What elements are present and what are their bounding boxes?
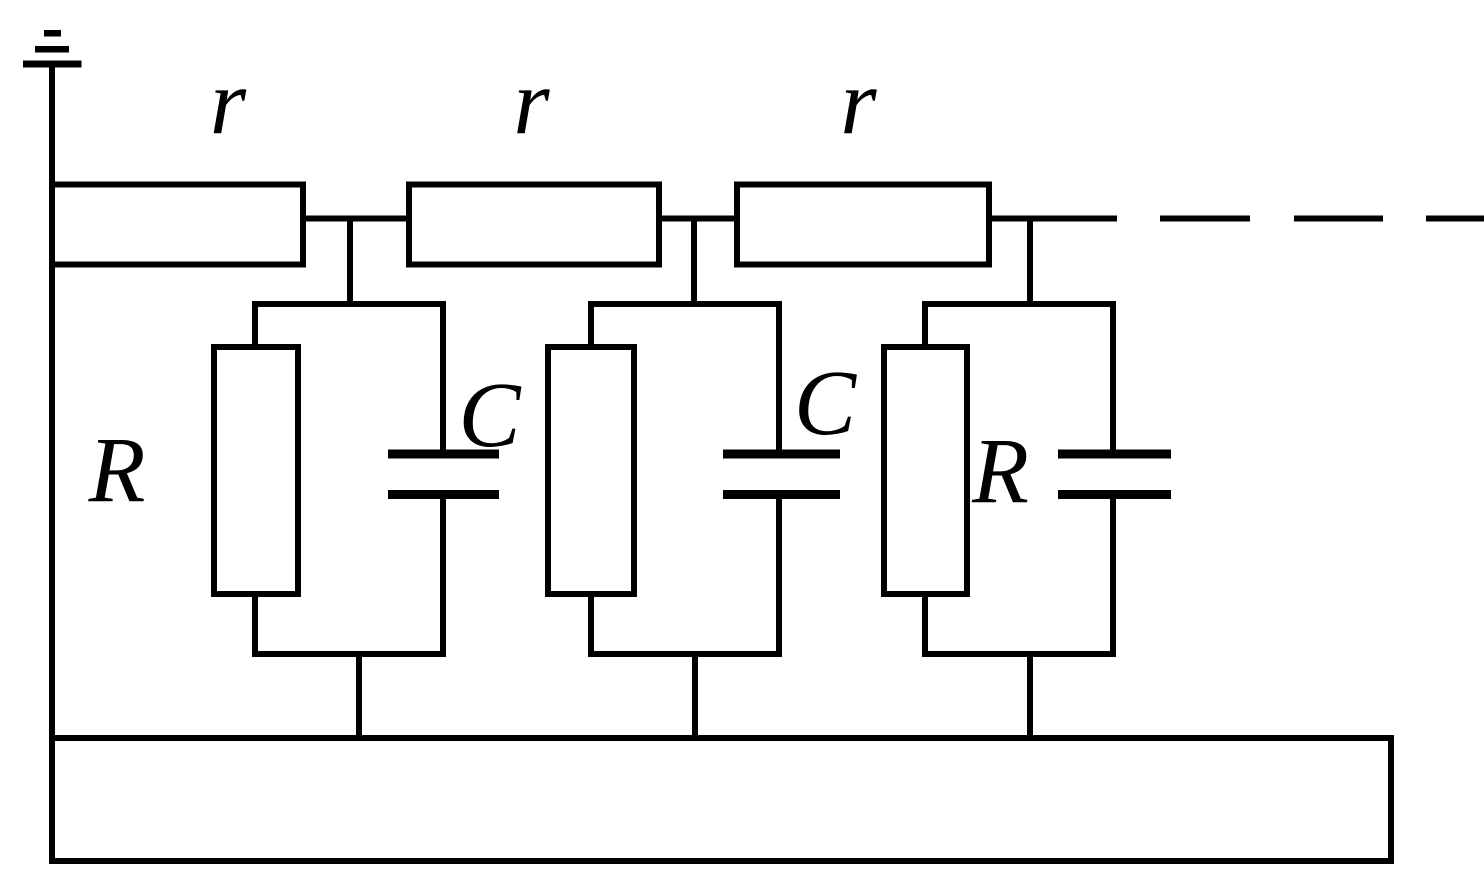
wire: section 3 top rail (922, 301, 1116, 307)
resistor R2 (548, 347, 634, 594)
capacitor C2 (723, 454, 840, 495)
wire: section 2 left branch to R2 top (588, 301, 594, 350)
wire: C3 bottom plate to section 3 bottom rail (1110, 499, 1116, 657)
resistor r1 (52, 185, 303, 265)
wire: R1 bottom to section 1 bottom rail (252, 591, 258, 657)
svg-text:R: R (971, 421, 1029, 524)
wire: section 2 to bottom electrode (692, 651, 698, 738)
node 2: junction wire down from series line (691, 219, 697, 308)
node 1: junction wire down from series line (347, 219, 353, 308)
wire: R3 bottom to section 3 bottom rail (922, 591, 928, 657)
wire: section 2 bottom rail (588, 651, 782, 657)
svg-text:r: r (840, 51, 877, 154)
resistor R3 (884, 347, 967, 594)
wire: dashed continuation of ladder (1160, 216, 1484, 222)
svg-text:C: C (794, 352, 857, 455)
wire: section 1 to bottom electrode (356, 651, 362, 738)
svg-text:r: r (210, 51, 247, 154)
wire: R2 bottom to section 2 bottom rail (588, 591, 594, 657)
wire: section 3 right branch to C3 top plate (1110, 301, 1116, 450)
capacitor C1 (388, 454, 499, 495)
wire: section 1 right branch to C1 top plate (440, 301, 446, 450)
wire: C2 bottom plate to section 2 bottom rail (776, 499, 782, 657)
wire: section 1 top rail (252, 301, 446, 307)
resistor r2 (409, 185, 659, 265)
wire: section 3 to bottom electrode (1027, 651, 1033, 738)
resistor R1 (214, 347, 298, 594)
node 3: junction wire down from series line (1027, 219, 1033, 308)
svg-text:r: r (513, 51, 550, 154)
ground (23, 33, 82, 64)
wire: section 1 bottom rail (252, 651, 446, 657)
bottom electrode bar (52, 738, 1391, 861)
wire: section 3 bottom rail (922, 651, 1116, 657)
wire: section 2 right branch to C2 top plate (776, 301, 782, 450)
wire: section 1 left branch to R1 top (252, 301, 258, 350)
capacitor C3 (1058, 454, 1171, 495)
resistor r3 (737, 185, 989, 265)
wire: section 3 left branch to R3 top (922, 301, 928, 350)
wire: r2 to r3 (659, 216, 737, 222)
svg-text:R: R (88, 420, 146, 523)
wire: left vertical from ground to bottom electrode (49, 64, 55, 738)
wire: r3 to continuation (989, 216, 1117, 222)
wire: r1 to r2 (303, 216, 409, 222)
wire: section 2 top rail (588, 301, 782, 307)
wire: C1 bottom plate to section 1 bottom rail (440, 499, 446, 657)
svg-text:C: C (458, 364, 521, 467)
